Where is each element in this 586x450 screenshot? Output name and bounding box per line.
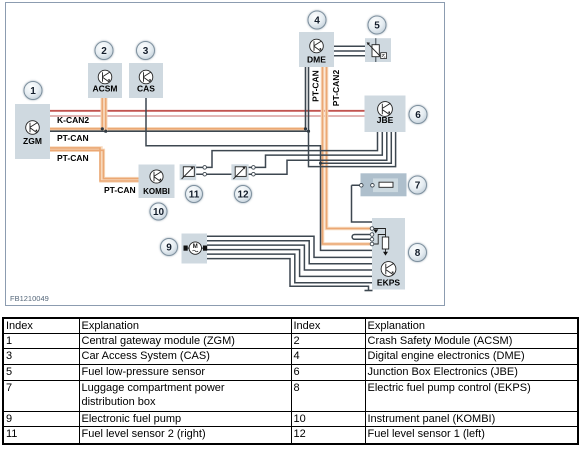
junction dot CAS riser bbox=[319, 162, 322, 165]
svg-text:6: 6 bbox=[415, 110, 421, 121]
svg-text:JBE: JBE bbox=[377, 115, 394, 125]
box fuel level sensor 1 left (12) bbox=[231, 164, 255, 180]
box KOMBI (10) bbox=[139, 165, 175, 199]
wire ACSM orange drop pair to PT-CAN bus bbox=[101, 98, 108, 133]
box fuel level sensor 2 right (11) bbox=[180, 164, 207, 180]
box DME (4) bbox=[299, 32, 334, 67]
wire PT-CAN bus orange (ZGM to DME drop) bbox=[50, 127, 306, 131]
svg-text:PT-CAN2: PT-CAN2 bbox=[331, 70, 341, 107]
wire sensor12 to JBE bbox=[246, 132, 382, 167]
svg-text:9: 9 bbox=[166, 243, 172, 254]
svg-text:FB1210049: FB1210049 bbox=[10, 294, 49, 303]
index circle 3 bbox=[136, 41, 155, 60]
svg-text:PT-CAN: PT-CAN bbox=[57, 153, 89, 163]
wire sensor12 pin2 to JBE bbox=[246, 132, 387, 174]
index circle 11 bbox=[185, 185, 203, 203]
wire pump P3 to EKPS bbox=[207, 245, 372, 270]
index circle 9 bbox=[160, 238, 178, 256]
svg-text:8: 8 bbox=[415, 248, 421, 259]
wire DME to fuel low-pressure sensor (3 lines) bbox=[334, 46, 365, 56]
ground bbox=[365, 290, 373, 292]
wire pump P1 to EKPS bbox=[207, 236, 372, 257]
index circle 5 bbox=[368, 16, 387, 35]
legend table bbox=[2, 317, 579, 445]
wire K-CAN2 red line 2 (ZGM to JBE) bbox=[50, 115, 365, 117]
svg-text:4: 4 bbox=[314, 16, 320, 27]
index circle 1 bbox=[24, 81, 43, 100]
svg-text:12: 12 bbox=[237, 190, 249, 201]
svg-text:PT-CAN: PT-CAN bbox=[311, 70, 321, 102]
index circle 8 bbox=[408, 243, 427, 262]
index circle 4 bbox=[308, 11, 327, 30]
wire pump P6 to ground bbox=[207, 259, 373, 291]
svg-text:PT-CAN: PT-CAN bbox=[104, 185, 136, 195]
index circle 12 bbox=[234, 185, 252, 203]
svg-text:7: 7 bbox=[415, 181, 421, 192]
wire fuse 7 lead bbox=[352, 184, 398, 186]
svg-text:10: 10 bbox=[153, 207, 165, 218]
EKPS U-loop pins 2-3 bbox=[352, 235, 372, 240]
index circle 10 bbox=[150, 203, 168, 221]
wire pump P4 to EKPS bbox=[207, 250, 372, 277]
wire DME PT-CAN2 orange pair to EKPS bbox=[323, 67, 373, 244]
box fuel low-pressure sensor (5) bbox=[365, 38, 391, 62]
box JBE (6) bbox=[365, 96, 406, 133]
wire fuse to EKPS top bbox=[352, 185, 373, 222]
wire DME PT-CAN dark drop pair bbox=[304, 67, 310, 133]
wire DME PT-CAN continuation to JBE bbox=[309, 131, 396, 166]
box ZGM (1) bbox=[15, 104, 50, 159]
box ACSM (2) bbox=[88, 63, 122, 98]
index circle 6 bbox=[409, 105, 428, 124]
svg-text:ZGM: ZGM bbox=[23, 136, 42, 146]
wire sensor11 to JBE bbox=[194, 132, 378, 167]
svg-text:1: 1 bbox=[30, 86, 36, 97]
svg-text:5: 5 bbox=[374, 21, 380, 32]
wire K-CAN2 red line 1 (ZGM to JBE) bbox=[50, 110, 365, 112]
wire PT-CAN thick orange pair ZGM to KOMBI bbox=[50, 148, 139, 181]
box EKPS (8) bbox=[372, 218, 405, 290]
wire pump P2 to EKPS bbox=[207, 241, 372, 264]
svg-text:DME: DME bbox=[307, 55, 326, 65]
wire pump P5 to EKPS bbox=[207, 254, 372, 283]
frame border bbox=[6, 3, 445, 306]
svg-text:ACSM: ACSM bbox=[92, 84, 117, 94]
svg-text:M: M bbox=[193, 244, 198, 250]
wire CAS net to EKPS and JBE bbox=[146, 98, 391, 250]
wire sensor11 pin2 jumper to sensor12 bbox=[194, 173, 236, 175]
svg-text:11: 11 bbox=[189, 190, 200, 201]
svg-text:PT-CAN: PT-CAN bbox=[57, 133, 89, 143]
svg-text:EKPS: EKPS bbox=[377, 278, 400, 288]
wire PT-CAN bus dark (ZGM to DME drop) bbox=[50, 130, 309, 132]
box luggage compartment power distribution box (7) bbox=[360, 173, 407, 196]
svg-text:KOMBI: KOMBI bbox=[143, 187, 170, 196]
index circle 7 bbox=[408, 176, 427, 195]
svg-text:K-CAN2: K-CAN2 bbox=[57, 115, 89, 125]
box CAS (3) bbox=[129, 63, 163, 98]
box electronic fuel pump (9) bbox=[182, 234, 208, 264]
index circle 2 bbox=[95, 41, 114, 60]
svg-text:CAS: CAS bbox=[137, 84, 155, 94]
svg-text:3: 3 bbox=[143, 46, 149, 57]
EKPS pin circles bbox=[370, 227, 374, 246]
junction dots ACSM/PT-CAN bbox=[101, 127, 104, 130]
svg-text:2: 2 bbox=[101, 46, 107, 57]
